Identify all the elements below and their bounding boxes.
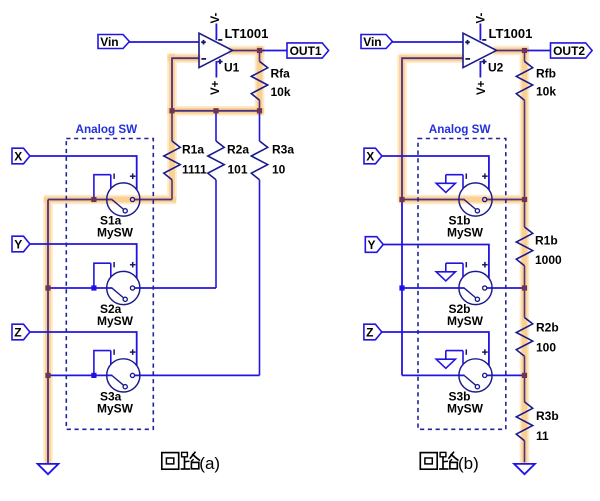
- svg-text:R3b: R3b: [536, 409, 559, 423]
- port Z (b): [364, 324, 382, 340]
- svg-text:10k: 10k: [536, 85, 556, 99]
- svg-text:Y: Y: [14, 238, 22, 252]
- svg-text:1111: 1111: [182, 162, 207, 176]
- wire Vin to U1 + input: [129, 41, 200, 43]
- svg-text:Rfb: Rfb: [536, 67, 556, 81]
- junction bus / R2a: [213, 108, 218, 113]
- junction R2b/R3b row3: [522, 373, 527, 378]
- svg-text:V+: V+: [210, 80, 222, 95]
- switch row 2 wires: [48, 287, 112, 289]
- feedback wire to U2 - input (highlighted): [402, 58, 463, 199]
- analog switch S2a (MySW): [107, 262, 140, 305]
- junction U2 output / Rfb: [522, 48, 527, 53]
- svg-text:10: 10: [272, 162, 286, 176]
- junction R1b/R2b row2: [522, 285, 527, 290]
- U1 V- supply pin: [215, 24, 217, 41]
- svg-text:R2a: R2a: [227, 143, 249, 157]
- port OUT1: [287, 43, 329, 58]
- svg-text:X: X: [14, 150, 22, 164]
- junction rail / row2 (b): [399, 285, 404, 290]
- svg-text:Analog SW: Analog SW: [429, 123, 492, 136]
- port Z (a): [12, 324, 30, 340]
- wire Z input to S3b control: [382, 332, 489, 366]
- U2 V+ supply pin: [479, 61, 481, 78]
- svg-text:100: 100: [536, 341, 556, 355]
- svg-text:V-: V-: [476, 12, 488, 23]
- junction S2a control return: [91, 285, 96, 290]
- svg-text:R3a: R3a: [272, 143, 294, 157]
- wire Rfb node to OUT2: [525, 50, 551, 52]
- svg-text:MySW: MySW: [447, 314, 484, 328]
- bus wires through S1b (highlighted): [402, 199, 465, 201]
- svg-text:Rfa: Rfa: [271, 67, 291, 81]
- port Y (a): [12, 236, 30, 252]
- S3a minus-control return wire: [94, 351, 111, 376]
- svg-text:LT1001: LT1001: [489, 26, 533, 41]
- resistor R1b: [524, 200, 526, 228]
- junction S3a control return: [91, 373, 96, 378]
- switch row 3 wires (b): [402, 374, 465, 376]
- svg-text:OUT1: OUT1: [290, 44, 322, 58]
- wire Y input to S2a control: [30, 244, 137, 278]
- wire Y input to S2b control: [383, 245, 489, 279]
- port Vin (a): [98, 35, 129, 49]
- highlighted current path net, circuit (b): [399, 48, 529, 463]
- port Y (b): [365, 237, 383, 253]
- wire X input to S1b control: [382, 156, 489, 190]
- feedback wire to U1 - input (highlighted): [172, 58, 199, 111]
- svg-text:Analog SW: Analog SW: [76, 123, 139, 136]
- local ground symbol at S3b: [445, 351, 447, 360]
- resistor R3b: [524, 375, 526, 402]
- switch row 3 wires: [48, 374, 112, 376]
- junction bus / R1a: [169, 108, 174, 113]
- svg-text:11: 11: [536, 429, 549, 443]
- analog switch S3a (MySW): [107, 349, 140, 392]
- wire Rfa node to OUT1: [260, 50, 288, 52]
- svg-text:Z: Z: [366, 326, 373, 340]
- wire U2 output to Rfb node (highlighted): [497, 50, 525, 52]
- local ground symbol at S2b: [445, 263, 447, 272]
- resistor R1a (highlighted branch): [171, 111, 173, 141]
- analog switch S2b (MySW): [459, 262, 492, 305]
- svg-text:1000: 1000: [535, 253, 562, 267]
- svg-text:MySW: MySW: [97, 226, 134, 240]
- left rail (b): [401, 200, 403, 376]
- junction bus / R1b: [522, 197, 527, 202]
- ground symbol, circuit (b): [514, 464, 535, 474]
- wire Vin to U2 + input: [391, 41, 463, 43]
- svg-text:(b): (b): [458, 454, 479, 473]
- port X (b): [364, 148, 382, 164]
- svg-text:X: X: [366, 150, 374, 164]
- svg-text:OUT2: OUT2: [553, 44, 585, 58]
- ground symbol, circuit (a): [38, 464, 59, 474]
- port OUT2: [551, 43, 593, 58]
- U1 V+ supply pin: [215, 61, 217, 78]
- op-amp U1 LT1001: [199, 33, 233, 67]
- Analog SW dashed box, circuit (b): [418, 139, 506, 430]
- resistor R2b: [524, 288, 526, 318]
- S1a minus-control return wire: [94, 175, 111, 200]
- switch row 1 wires (highlighted): [48, 199, 112, 201]
- S1b minus-control wire to local ground: [446, 174, 463, 176]
- U2 V- supply pin: [479, 24, 481, 41]
- resistor Rfb: [524, 51, 526, 62]
- svg-text:Vin: Vin: [363, 35, 381, 49]
- highlighted current path net, circuit (a): [44, 46, 265, 463]
- junction bus / feedback (b): [399, 197, 404, 202]
- analog switch S3b (MySW): [459, 349, 492, 392]
- analog switch S1a (MySW): [107, 173, 140, 216]
- junction bus / R3a: [257, 108, 262, 113]
- svg-text:Vin: Vin: [100, 35, 118, 49]
- switch row 2 wires (b): [402, 287, 465, 289]
- port X (a): [12, 148, 30, 164]
- resistor Rfa: [259, 51, 261, 62]
- svg-text:R1b: R1b: [535, 234, 558, 248]
- svg-text:U2: U2: [488, 61, 504, 75]
- junction rail / row3: [45, 373, 50, 378]
- wire U1 output to Rfa node (highlighted): [233, 50, 260, 52]
- svg-text:10k: 10k: [271, 85, 291, 99]
- analog switch S1b (MySW): [459, 173, 492, 216]
- resistor R2a: [215, 111, 217, 141]
- svg-text:(a): (a): [199, 454, 220, 473]
- ground rail wire (highlighted): [47, 200, 49, 464]
- svg-text:MySW: MySW: [447, 226, 484, 240]
- caption 回路(a): [162, 452, 220, 473]
- svg-text:V+: V+: [476, 80, 488, 95]
- svg-text:MySW: MySW: [447, 402, 484, 416]
- Analog SW dashed box, circuit (a): [66, 139, 153, 430]
- op-amp U2 LT1001: [463, 33, 497, 67]
- svg-text:MySW: MySW: [97, 402, 134, 416]
- port Vin (b): [361, 35, 392, 49]
- summing bus wire (highlighted): [172, 110, 260, 112]
- local ground symbol at S1b: [445, 175, 447, 184]
- svg-text:101: 101: [228, 162, 248, 176]
- junction U1 output / Rfa: [257, 48, 262, 53]
- S2a minus-control return wire: [94, 263, 111, 288]
- svg-text:V-: V-: [210, 12, 222, 23]
- wire X input to S1a control: [30, 156, 137, 190]
- svg-text:Y: Y: [368, 238, 376, 252]
- svg-text:R1a: R1a: [182, 143, 204, 157]
- svg-text:U1: U1: [224, 61, 240, 75]
- resistor R3a: [259, 111, 261, 141]
- svg-text:LT1001: LT1001: [225, 26, 269, 41]
- svg-text:Z: Z: [14, 326, 21, 340]
- junction rail / row2: [45, 285, 50, 290]
- S2b minus-control wire to local ground: [446, 262, 463, 264]
- svg-text:R2b: R2b: [536, 321, 559, 335]
- caption 回路(b): [420, 452, 478, 473]
- S3b minus-control wire to local ground: [446, 350, 463, 352]
- svg-text:MySW: MySW: [97, 314, 134, 328]
- wire Z input to S3a control: [30, 332, 137, 366]
- junction S1a control return: [91, 197, 96, 202]
